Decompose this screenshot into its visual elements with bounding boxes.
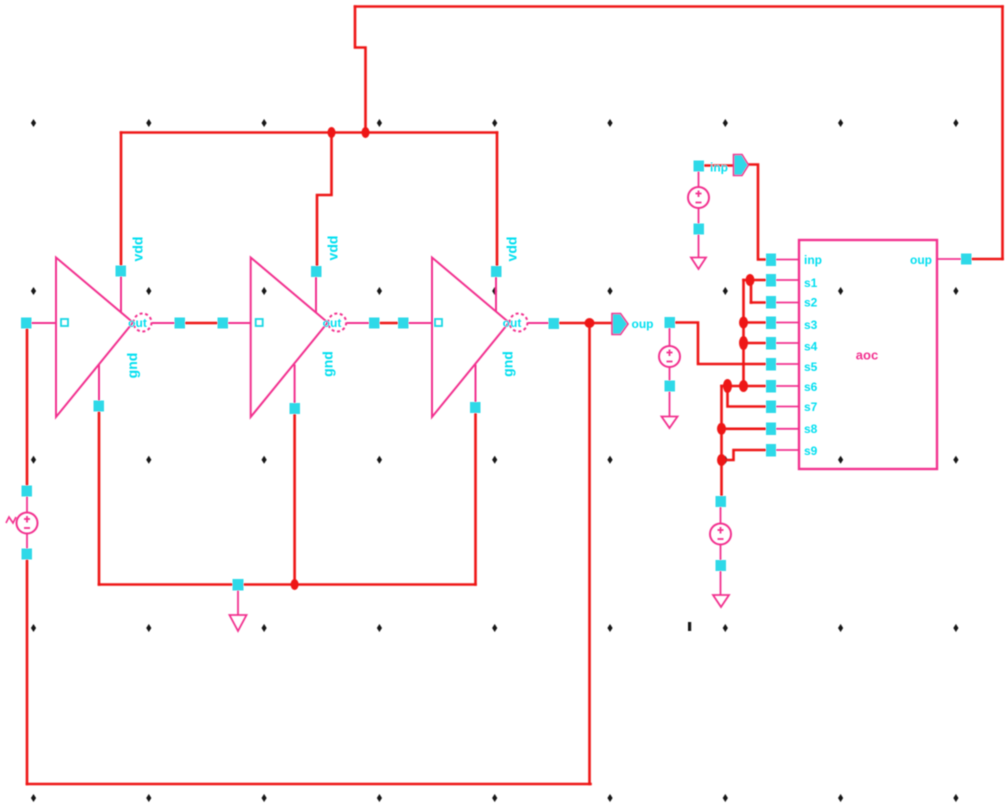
wire vdd to inverter1 (120, 133, 123, 268)
wire s7 riser (728, 386, 767, 407)
wire inv2 out to inv3 in (377, 322, 400, 325)
wire feedback right vertical (588, 323, 591, 784)
voltage source V2 (middle, oup net) (659, 328, 680, 417)
svg-text:s9: s9 (804, 444, 818, 458)
svg-text:aoc: aoc (856, 348, 878, 363)
svg-text:s5: s5 (804, 360, 818, 374)
junction s6 a (723, 379, 732, 393)
wire left vertical upper (26, 327, 29, 487)
inverter I1 (30, 258, 176, 418)
inverter I1 output bubble (134, 314, 152, 332)
wire inp source to inp arrow (703, 164, 734, 167)
wire s1 pin (744, 279, 767, 282)
wire vdd to inverter3 (496, 133, 499, 268)
junction gnd bus (291, 579, 299, 590)
node block pin inp (766, 254, 776, 267)
block pin name labels (804, 253, 932, 458)
wire s6 pin (722, 385, 767, 388)
wire s8 pin (722, 427, 767, 430)
node V3 top (716, 496, 727, 507)
voltage source V4 (left, vsin) (6, 496, 38, 549)
wire vdd jog to inverter2 (317, 133, 332, 268)
ground symbol for V2 (662, 417, 678, 429)
svg-text:vdd: vdd (504, 237, 520, 262)
svg-text:gnd: gnd (124, 353, 140, 379)
ground symbol for V3 (713, 595, 729, 607)
node inv3 gnd (470, 402, 481, 413)
node inv3 out (549, 318, 560, 329)
svg-text:s4: s4 (804, 340, 818, 354)
inverter I3 (406, 258, 550, 418)
node inv2 out a (369, 318, 380, 329)
BLOCK (776, 240, 962, 469)
node inv1 out a (175, 318, 186, 329)
node block pin s5 (766, 358, 776, 371)
svg-text:vdd: vdd (325, 236, 341, 261)
junction s4 (739, 336, 748, 350)
node block pin s6 (766, 380, 776, 393)
wire s9 jog (722, 450, 767, 460)
pin stub inp (776, 259, 799, 261)
inverter I2 output bubble (328, 314, 346, 332)
PINS placeholder (0, 0, 1, 1)
wire s4 pin (744, 342, 767, 345)
I1 input pin square (61, 319, 68, 326)
ground symbol on gnd bus (230, 590, 247, 631)
block pin stubs (776, 259, 962, 450)
svg-text:out: out (128, 316, 147, 330)
node V3 bottom (716, 560, 727, 571)
junction vdd bus B (362, 127, 370, 138)
svg-text:gnd: gnd (320, 351, 336, 377)
svg-text:gnd: gnd (500, 351, 516, 377)
wire top feedback horizontal (355, 5, 1003, 8)
node block pin s9 (766, 444, 776, 457)
wire top feedback left jog (355, 7, 366, 133)
junction vdd bus A (328, 127, 336, 138)
node inv1 input (21, 318, 32, 329)
node block pin s3 (766, 317, 776, 330)
node block pin oup (961, 254, 972, 265)
SOURCES (6, 171, 731, 631)
node V1 top (694, 161, 705, 172)
node V4 bottom (22, 549, 33, 560)
wire s-bus lower vertical (720, 386, 723, 497)
pin arrow oup (612, 314, 628, 335)
block U1 body (799, 240, 937, 469)
wire inv1 out to inv2 in (183, 322, 219, 325)
svg-text:vdd: vdd (130, 237, 146, 262)
CONNECTION SQUARES (21, 161, 972, 591)
node inv2 out b (398, 318, 409, 329)
svg-text:out: out (503, 316, 522, 330)
pin arrow inp (734, 155, 749, 176)
pin stub s5 (776, 363, 799, 365)
node V2 top (665, 317, 676, 328)
wire inv3 out to oup (559, 322, 611, 325)
svg-text:s2: s2 (804, 296, 818, 310)
node block pin s4 (766, 337, 776, 350)
pin stub oup (937, 258, 962, 260)
node block pin s7 (766, 401, 776, 414)
wire gnd from inverter2 (293, 412, 296, 585)
node gnd bus (233, 579, 244, 591)
junction s6 b (739, 380, 748, 392)
svg-text:s1: s1 (804, 276, 818, 290)
node V4 top (22, 486, 33, 497)
svg-text:oup: oup (632, 317, 654, 331)
node inv1 out b (218, 318, 229, 329)
PINS (612, 155, 749, 335)
svg-text:oup: oup (910, 253, 932, 267)
wire left vertical lower (26, 558, 29, 784)
node V1 bottom (694, 224, 705, 235)
inverter pin squares and labels (61, 236, 521, 379)
node inv1 vdd (116, 266, 127, 277)
pin stub s1 (776, 279, 799, 281)
wire s2 pin (751, 301, 766, 304)
node inv2 vdd (311, 266, 322, 277)
inverter I2 (226, 258, 371, 418)
inverter I3 output bubble (510, 314, 528, 332)
wire vsrc2 to s5 pin (674, 323, 766, 365)
junction s3 (739, 317, 748, 329)
svg-text:inp: inp (710, 161, 728, 175)
ground symbol for V1 (691, 258, 706, 270)
wire s2 riser (750, 280, 753, 303)
pin stub s4 (776, 342, 799, 344)
node inv3 vdd (491, 266, 502, 277)
junction s1/s2 (746, 274, 755, 286)
junction inv3 output (585, 318, 595, 328)
wire vdd bus (121, 131, 497, 134)
node V2 bottom (665, 381, 676, 392)
grid dots (31, 119, 959, 802)
INVERTERS (30, 258, 550, 418)
voltage source V3 (bottom) (710, 507, 731, 595)
svg-text:s6: s6 (804, 380, 818, 394)
pin stub s7 (776, 406, 799, 408)
pin stub s6 (776, 385, 799, 387)
stray mark (688, 622, 691, 631)
svg-text:s3: s3 (804, 318, 818, 332)
svg-text:s8: s8 (804, 422, 818, 436)
wire gnd from inverter1 (98, 410, 101, 585)
svg-text:inp: inp (804, 253, 822, 267)
wire s3 pin (744, 321, 767, 324)
wire inp arrow to block inp pin (748, 165, 766, 260)
wire gnd from inverter3 (474, 412, 477, 585)
node block pin s1 (766, 274, 776, 287)
svg-text:out: out (323, 316, 342, 330)
I2 input pin square (256, 319, 263, 326)
node block pin s2 (766, 296, 776, 309)
voltage source V1 (top, inp) (688, 171, 709, 258)
wire oup pin to right vertical (970, 258, 1003, 261)
wire top feedback right vertical (1001, 7, 1004, 260)
wire s-bus vertical (742, 280, 745, 386)
wire feedback bottom horizontal (27, 783, 591, 786)
junction s8 (717, 423, 726, 435)
pin stub s2 (776, 302, 799, 304)
node block pin s8 (766, 423, 776, 436)
pin stub s3 (776, 322, 799, 324)
pin stub s9 (776, 449, 799, 451)
wire gnd bus (99, 583, 476, 586)
svg-text:s7: s7 (804, 400, 818, 414)
junction s9 (717, 454, 726, 466)
pin stub s8 (776, 428, 799, 430)
I3 input pin square (435, 319, 442, 326)
node inv1 gnd (94, 401, 105, 412)
node inv2 gnd (290, 403, 301, 414)
